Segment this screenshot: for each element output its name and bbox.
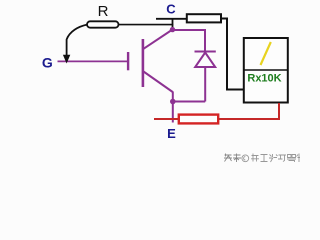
gate bar [127,52,129,70]
emitter junction dot [170,99,176,105]
wire from R2 down to meter [221,19,244,90]
resistor R [87,21,119,27]
resistor R2 [187,14,221,22]
red wire left of R3 [154,118,179,120]
wire upper to resistor 2 [156,18,187,20]
meter box [244,38,288,103]
collector lead [144,30,173,49]
resistor R3 [179,115,218,124]
watermark [224,154,300,163]
wire vertical at C node [172,19,174,30]
wire emitter down to red bus [172,92,174,123]
svg-text:G: G [42,55,53,71]
emitter lead [144,72,173,93]
meter divider [244,69,288,71]
svg-text:E: E [167,126,176,141]
gate wire [58,60,128,62]
wire diode anode to emitter node [173,101,205,103]
svg-text:C: C [166,2,176,17]
wire from R to C node [119,24,174,26]
diode D1 [195,52,216,102]
svg-text:R: R [98,3,109,20]
body bar [142,39,145,87]
red wire R3 to meter [218,103,279,119]
wire C node to diode cathode [173,30,205,51]
transistor Q1 (IGBT) [58,30,173,93]
curved arrow from R to gate [67,25,88,56]
node C junction dot [170,27,175,32]
meter needle [261,42,271,65]
svg-text:Rx10K: Rx10K [247,73,281,85]
